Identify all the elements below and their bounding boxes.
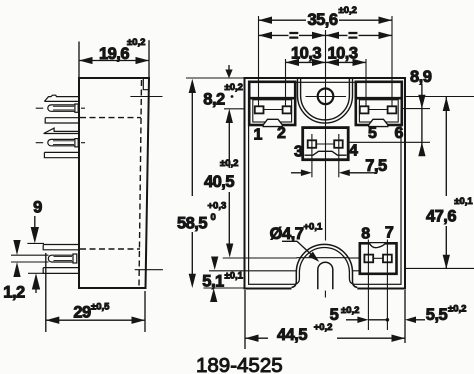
svg-text:44,5: 44,5 — [277, 326, 307, 344]
terminal block 5-6 — [356, 82, 402, 127]
pin 3 flat — [45, 118, 79, 123]
svg-text:±0,2: ±0,2 — [448, 304, 466, 315]
mounting plane extension left — [209, 270, 296, 272]
svg-text:8,2: 8,2 — [203, 91, 225, 109]
dimension 10,3 10,3 — [285, 59, 287, 107]
terminal block 3-4 — [303, 128, 349, 160]
dimension 44,5 — [245, 337, 268, 339]
dimension 5,5 — [405, 317, 416, 324]
svg-text:29: 29 — [73, 304, 91, 322]
svg-text:6: 6 — [394, 125, 403, 142]
vertical centerline — [325, 30, 327, 241]
terminal 8-7 centerline extension left — [223, 257, 297, 259]
svg-text:35,6: 35,6 — [307, 11, 337, 29]
mounting plane extension right — [406, 267, 474, 269]
svg-text:40,5: 40,5 — [204, 173, 234, 191]
svg-text:Ø4,7: Ø4,7 — [270, 225, 304, 243]
svg-text:3: 3 — [294, 143, 303, 160]
dimension equal halves — [259, 34, 289, 36]
svg-text:5: 5 — [368, 125, 377, 142]
terminal block 1-2 — [249, 82, 295, 127]
svg-text:1: 1 — [254, 127, 263, 144]
svg-text:±0,1: ±0,1 — [454, 196, 473, 207]
hole centerline extension right — [406, 96, 474, 98]
pin B bullet bottom group — [48, 255, 73, 262]
pin 4 wedge — [44, 128, 79, 133]
svg-text:7,5: 7,5 — [365, 157, 387, 175]
bottom slot centerline — [324, 291, 326, 298]
bottom arch outer (masks body bottom edge) — [292, 244, 358, 289]
svg-text:±0,2: ±0,2 — [339, 5, 357, 16]
equal sign left — [289, 33, 298, 38]
svg-text:±0,2: ±0,2 — [225, 82, 243, 93]
svg-text:58,5: 58,5 — [177, 215, 207, 233]
terminal 8-7 pin extension lines down — [367, 240, 369, 331]
dimension 1,2 — [11, 254, 49, 256]
body edge extensions down — [244, 290, 246, 349]
left view body outline — [79, 78, 149, 288]
left view top-right notch — [143, 79, 149, 90]
top U-notch outer — [298, 79, 353, 123]
terminal block 8-7 — [360, 243, 397, 273]
left view reference line upper crossing right edge — [130, 96, 162, 98]
svg-text:7: 7 — [385, 225, 394, 242]
svg-text:2: 2 — [277, 125, 286, 142]
terminal 8-7 centerline crossing dome — [297, 257, 349, 259]
dimension 40,5 — [226, 109, 233, 123]
left view dashed horizontal line lower — [80, 248, 140, 250]
svg-text:10,3: 10,3 — [327, 45, 357, 63]
svg-text:19,6: 19,6 — [99, 45, 129, 63]
dimension 7,5 — [311, 134, 313, 177]
pin 6 flat — [44, 152, 79, 157]
bottom slot 4,7 — [318, 262, 333, 289]
dimension 35,6 — [258, 16, 260, 107]
dimension 58,5 — [189, 79, 196, 93]
bottom edge extension left — [203, 287, 244, 289]
svg-text:5,1: 5,1 — [202, 273, 224, 291]
svg-text:±0,1: ±0,1 — [225, 271, 244, 282]
svg-text:+0,1: +0,1 — [304, 221, 323, 232]
dimension 5,1 — [211, 257, 218, 271]
top U-notch inner — [301, 79, 350, 120]
svg-text:±0,5: ±0,5 — [91, 302, 110, 313]
bottom arch inner — [296, 247, 354, 283]
terminal 3-4 centerline extension right — [348, 141, 430, 143]
pin A flat bottom group — [43, 245, 79, 250]
svg-text:189-4525: 189-4525 — [196, 354, 283, 374]
left view dashed horizontal line upper — [80, 117, 141, 119]
svg-text:1,2: 1,2 — [3, 284, 25, 302]
svg-text:5,5: 5,5 — [426, 306, 448, 324]
pin 5 centerline dashes — [36, 142, 44, 144]
dimension 8,2 — [228, 65, 230, 72]
left view reference line lower crossing right edge — [135, 269, 163, 271]
equal sign right — [348, 33, 357, 38]
svg-text:10,3: 10,3 — [291, 45, 321, 63]
svg-text:+0,2: +0,2 — [314, 322, 333, 333]
mounting hole top — [318, 89, 334, 105]
pin 2 bullet upper — [48, 105, 75, 111]
pin 5 bullet — [48, 139, 75, 145]
svg-text:9: 9 — [33, 199, 42, 217]
svg-text:4: 4 — [349, 142, 358, 159]
left view dashed inner vertical line — [139, 80, 142, 286]
dimension 29 — [45, 253, 47, 332]
dimension 19,6 — [78, 42, 80, 78]
svg-text:47,6: 47,6 — [426, 208, 456, 226]
svg-text:±0,2: ±0,2 — [220, 158, 238, 169]
top edge extension to left — [186, 77, 245, 79]
pin C flat bottom group — [43, 268, 79, 274]
svg-text:±0,2: ±0,2 — [341, 305, 359, 316]
svg-text:+0,3: +0,3 — [208, 201, 227, 212]
dimension 47,6 — [445, 97, 447, 197]
svg-text:0: 0 — [211, 212, 216, 223]
svg-text:±0,2: ±0,2 — [127, 37, 145, 48]
pin 2 centerline dashes — [36, 107, 44, 109]
right view body outline inner — [249, 82, 401, 284]
right view body outline outer — [245, 78, 406, 289]
hole horizontal centerline — [306, 96, 347, 98]
pin 1 flat blade upper — [44, 95, 79, 101]
svg-text:8,9: 8,9 — [410, 68, 432, 86]
terminal 5-6 centerline extension right — [402, 108, 430, 110]
